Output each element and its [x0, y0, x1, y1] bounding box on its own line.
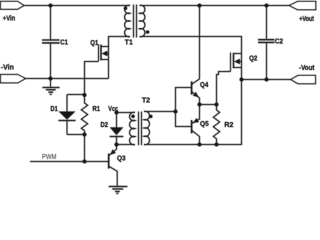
- node PWM / R1: [82, 159, 86, 163]
- T1 secondary phase dot: [146, 30, 150, 34]
- Q5 emitter (from Q4 emitter node): [192, 105, 200, 124]
- transistor Q5: [192, 105, 200, 145]
- Q3 emitter arrow: [110, 149, 116, 155]
- T2 left phase dot: [131, 115, 135, 119]
- resistor R1: [81, 95, 87, 135]
- node R2 bottom / bottom rail: [214, 142, 218, 146]
- svg-text:Q2: Q2: [249, 54, 257, 63]
- svg-text:R2: R2: [224, 120, 233, 129]
- node top rail / C2: [264, 3, 268, 7]
- svg-text:+Vin: +Vin: [3, 14, 16, 23]
- wire top rail right (T1 secondary to +Vout): [140, 5, 290, 7]
- svg-text:T1: T1: [125, 37, 133, 46]
- wire T2 right winding top to base line: [144, 111, 176, 113]
- node top rail / C1: [48, 3, 52, 7]
- diode D1: [58, 111, 75, 134]
- Q2 body stub: [240, 61, 242, 63]
- capacitor C2: [258, 6, 275, 80]
- node C2 / -Vout rail: [264, 77, 268, 81]
- T2 right phase dot: [149, 115, 153, 119]
- svg-text:R1: R1: [93, 104, 101, 113]
- Q1 source down to -Vin rail: [108, 47, 110, 79]
- wire -Vin rail: [26, 78, 109, 80]
- Q2 body arrow: [234, 59, 240, 65]
- Q4 emitter arrow: [193, 92, 199, 98]
- Q4 emitter: [192, 92, 200, 105]
- port +Vout: [289, 1, 316, 9]
- Q4 collector (to +Vout rail): [192, 6, 200, 85]
- svg-text:+Vout: +Vout: [299, 14, 314, 23]
- wire PWM line to Q3 base: [30, 161, 109, 163]
- wire top rail left (+Vin to T1 primary): [24, 5, 130, 7]
- transformer T2: [130, 111, 153, 145]
- Q3 base bar: [108, 154, 110, 169]
- svg-text:Q3: Q3: [117, 153, 126, 162]
- transistor Q3: [109, 145, 118, 186]
- ground (Q3 collector): [109, 187, 128, 194]
- svg-text:D1: D1: [51, 104, 58, 113]
- node Q1 gate / D1 / R1: [82, 93, 86, 97]
- wire D1 to R1 bottom: [67, 134, 85, 136]
- node R2 top / Q2 gate: [214, 102, 218, 106]
- wire gate node to D1: [67, 95, 85, 112]
- ground (input): [42, 79, 59, 95]
- Q5 emitter arrow: [193, 118, 199, 123]
- wire R1 bottom to PWM line: [84, 135, 86, 162]
- svg-text:T2: T2: [142, 96, 150, 105]
- svg-text:Q1: Q1: [90, 38, 98, 47]
- diode D2: [110, 113, 124, 145]
- resistor R2: [213, 105, 219, 145]
- wire Vcc node to T2 left winding top: [117, 112, 136, 114]
- T2 left winding: [130, 112, 135, 144]
- wire T1 secondary bottom to Q2 drain: [140, 37, 242, 54]
- Q5 collector: [192, 130, 200, 144]
- node Vcc: [114, 110, 118, 114]
- node Q5 collector / bottom rail: [197, 142, 201, 146]
- svg-text:D2: D2: [101, 120, 109, 129]
- T1 primary winding: [125, 5, 130, 36]
- Q1 body stub: [107, 53, 109, 55]
- Q1 body arrow: [102, 51, 108, 57]
- svg-text:-Vout: -Vout: [299, 63, 315, 72]
- Q5 base bar: [191, 120, 193, 133]
- Q2 gate bar: [230, 53, 232, 72]
- Q1 source stub: [101, 59, 109, 61]
- svg-text:Q4: Q4: [200, 80, 209, 89]
- port -Vin: [1, 75, 26, 83]
- wire bottom rail (T2 right bottom, Q5, R2, to Q2 source): [144, 80, 242, 145]
- T2 core: [138, 112, 140, 146]
- node D1/R1 bottom: [82, 132, 86, 136]
- wire T1 primary bottom to Q1 drain: [109, 37, 131, 47]
- T1 core: [133, 5, 135, 38]
- node Q4/Q5 emitters: [197, 102, 201, 106]
- Q2 source down to -Vout rail: [241, 54, 243, 80]
- node D2 / Q3 emitter / T2: [114, 142, 118, 146]
- wire emitters node to R2 top: [200, 104, 217, 106]
- svg-text:C1: C1: [60, 37, 68, 46]
- node Q2 source / -Vout rail: [239, 77, 243, 81]
- wire Q1 gate lead: [85, 62, 99, 96]
- capacitor C1: [50, 6, 52, 40]
- mosfet Q2: [231, 53, 242, 80]
- Q2 drain stub: [234, 53, 242, 55]
- transistor Q4: [192, 6, 200, 105]
- wire node to T2 left winding bottom: [117, 144, 136, 146]
- Q1 channel bar: [100, 45, 102, 61]
- Q3 collector: [109, 166, 118, 186]
- node T2 / base line: [173, 109, 177, 113]
- Q4 base bar: [191, 81, 193, 94]
- Q2 source stub: [234, 67, 242, 69]
- svg-text:PWM: PWM: [42, 154, 57, 161]
- wire Q4/Q5 base line: [176, 88, 192, 127]
- node top rail / Q4 collector: [197, 3, 201, 7]
- svg-text:Vcc: Vcc: [108, 104, 118, 113]
- transformer T1: [124, 5, 150, 38]
- Q1 drain stub: [101, 46, 109, 48]
- T1 primary phase dot: [124, 7, 128, 11]
- port +Vin: [1, 1, 25, 9]
- Q1 gate bar: [98, 45, 100, 62]
- T1 secondary winding: [140, 5, 145, 36]
- Q2 channel bar: [233, 53, 235, 68]
- T2 right winding: [144, 111, 150, 144]
- wire Q2 gate lead to R2 top: [217, 72, 231, 105]
- svg-text:-Vin: -Vin: [1, 62, 14, 71]
- Q3 emitter (from D2 node): [109, 145, 117, 156]
- wire -Vout rail: [242, 79, 291, 81]
- node -Vin rail / C1 / ground: [48, 76, 52, 80]
- port -Vout: [291, 75, 316, 83]
- svg-text:Q5: Q5: [200, 119, 209, 128]
- svg-text:C2: C2: [275, 36, 283, 45]
- mosfet Q1: [99, 45, 109, 79]
